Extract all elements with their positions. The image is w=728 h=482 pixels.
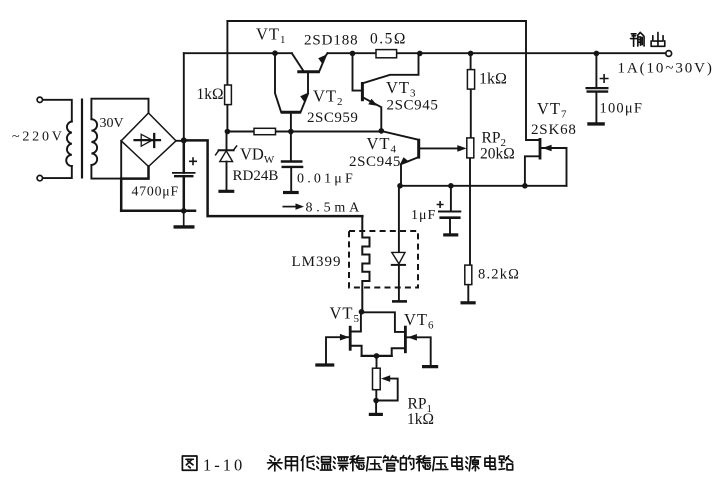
svg-text:1μF: 1μF [411, 208, 436, 223]
svg-text:20kΩ: 20kΩ [480, 146, 515, 163]
svg-text:1kΩ: 1kΩ [479, 71, 507, 88]
svg-text:~220V: ~220V [12, 130, 65, 145]
svg-text:2SC945: 2SC945 [349, 154, 401, 170]
svg-text:100μF: 100μF [600, 101, 644, 117]
svg-text:2SC945: 2SC945 [387, 98, 439, 114]
svg-text:0.5Ω: 0.5Ω [370, 31, 407, 48]
svg-text:1A(10~30V): 1A(10~30V) [618, 61, 714, 77]
svg-text:8.5mA: 8.5mA [306, 201, 364, 216]
svg-text:1kΩ: 1kΩ [197, 86, 224, 103]
svg-text:1-10: 1-10 [203, 456, 245, 475]
svg-text:LM399: LM399 [292, 254, 342, 270]
svg-text:RD24B: RD24B [233, 168, 279, 184]
svg-text:8.2kΩ: 8.2kΩ [478, 267, 520, 283]
svg-text:2SC959: 2SC959 [307, 110, 358, 126]
svg-text:30V: 30V [100, 116, 124, 131]
svg-text:4700μF: 4700μF [132, 184, 179, 199]
svg-text:1kΩ: 1kΩ [407, 411, 434, 428]
svg-text:2SD188: 2SD188 [304, 33, 359, 49]
svg-text:0.01μF: 0.01μF [297, 172, 356, 187]
svg-text:2SK68: 2SK68 [531, 122, 577, 138]
